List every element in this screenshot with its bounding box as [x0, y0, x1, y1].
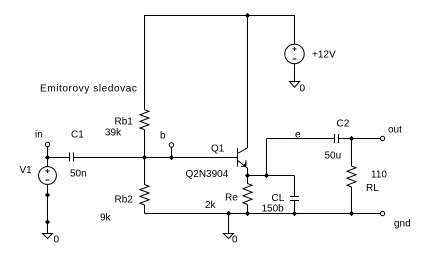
wire C2 to out terminal [339, 138, 381, 140]
wire base row (C1 to Rb junction to Q1 base) [74, 157, 238, 159]
junction dot ground stub [226, 211, 231, 216]
junction dot at b node [169, 155, 174, 160]
junction dot on V1 ground wire lower [45, 219, 50, 224]
svg-text:b: b [160, 131, 166, 142]
junction dot RL bottom [349, 211, 354, 216]
wire V1 bottom to ground [47, 184, 49, 233]
wire CL branch corner down [294, 176, 296, 197]
ground symbol 0 under +12V [290, 82, 300, 88]
junction dot CL bottom [292, 211, 297, 216]
wire emitter node to Re top [247, 176, 249, 184]
svg-text:50u: 50u [325, 151, 342, 162]
capacitor C2 [335, 134, 339, 143]
svg-text:0: 0 [54, 235, 60, 246]
wire RL bottom to rail [351, 187, 353, 214]
wire left vertical (Vcc to Rb1) [144, 15, 146, 110]
svg-text:CL: CL [272, 193, 285, 204]
wire Vcc drop to +12V source [294, 15, 296, 44]
wire Rb2 bottom to bottom rail [144, 205, 146, 214]
junction dot at RL top [349, 136, 354, 141]
Q1 collector lead [238, 16, 248, 154]
svg-text:0: 0 [300, 84, 306, 95]
wire Re bottom to rail [247, 205, 249, 214]
svg-text:50n: 50n [70, 168, 87, 179]
V1 minus sign [46, 179, 50, 181]
svg-text:C1: C1 [71, 129, 84, 140]
ground symbol 0 mid [224, 234, 234, 239]
Q1 emitter arrowhead [241, 160, 247, 166]
wire e vertical up [266, 139, 268, 176]
wire e row to C2 [267, 138, 335, 140]
ground symbol 0 under V1 [43, 234, 53, 239]
junction dot at in node [45, 155, 50, 160]
resistor RL [347, 166, 356, 187]
wire bottom rail [145, 213, 381, 215]
svg-text:9k: 9k [100, 213, 112, 224]
svg-text:Rb2: Rb2 [115, 194, 134, 205]
wire ground stub [228, 214, 230, 234]
svg-text:out: out [388, 125, 402, 136]
svg-text:Emitorovy sledovac: Emitorovy sledovac [40, 84, 138, 95]
svg-text:RL: RL [366, 183, 379, 194]
svg-text:C2: C2 [337, 119, 350, 130]
svg-text:150b: 150b [262, 204, 285, 215]
junction dot collector at top rail [245, 13, 250, 18]
wire +12V bottom to ground [294, 64, 296, 82]
svg-text:Rb1: Rb1 [115, 117, 134, 128]
transistor Q1 base bar [237, 148, 239, 167]
pin out (open terminal) [380, 136, 384, 140]
capacitor C1 [70, 153, 74, 162]
svg-text:in: in [35, 130, 43, 141]
svg-text:Q1: Q1 [211, 144, 225, 155]
voltage source +12V [285, 44, 304, 63]
resistor Rb1 [140, 110, 149, 130]
wire in-pin stub down to base row [47, 147, 49, 158]
wire top rail [145, 15, 295, 17]
svg-text:39k: 39k [105, 127, 122, 138]
+12V plus sign [293, 47, 297, 51]
wire Rb1 bottom to base-row junction to Rb2 top [144, 130, 146, 185]
svg-text:0: 0 [232, 235, 238, 246]
wire CL bottom to rail [294, 201, 296, 214]
V1 plus sign [46, 169, 50, 173]
+12V minus sign [293, 58, 297, 60]
voltage source V1 [39, 167, 57, 185]
wire base row left (in to C1) [48, 157, 70, 159]
junction dot at Rb1/Rb2 divider [142, 155, 147, 160]
Q1 emitter lead [238, 160, 248, 168]
svg-text:110: 110 [371, 170, 387, 181]
pin gnd (open terminal) [380, 211, 384, 215]
junction dot on V1 ground wire upper [45, 192, 50, 197]
svg-text:+12V: +12V [312, 50, 336, 61]
wire emitter row [248, 175, 295, 177]
svg-text:V1: V1 [20, 165, 33, 176]
svg-text:gnd: gnd [394, 218, 411, 229]
svg-text:Re: Re [225, 193, 238, 204]
wire b-pin stub [171, 147, 173, 157]
resistor Rb2 [140, 185, 149, 206]
capacitor CL [290, 197, 299, 201]
pin in (open terminal) [45, 142, 49, 146]
wire Q1 emitter down to emitter node [247, 168, 249, 176]
pin b (open terminal) [169, 143, 173, 147]
junction dot emitter node [245, 173, 250, 178]
svg-text:Q2N3904: Q2N3904 [186, 169, 229, 180]
junction dot Re bottom [245, 211, 250, 216]
resistor Re [243, 184, 252, 205]
wire RL top [351, 139, 353, 167]
svg-text:2k: 2k [205, 200, 217, 211]
junction dot at e-branch [264, 173, 269, 178]
wire in node down to V1 top [47, 158, 49, 167]
